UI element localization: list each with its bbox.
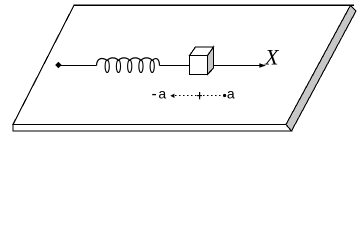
svg-text:a: a bbox=[227, 86, 235, 102]
spring L1 (coil humps) bbox=[97, 58, 160, 66]
wire from anchor to spring bbox=[60, 65, 97, 67]
mass cube top face bbox=[190, 47, 214, 56]
dimension left arrowhead bbox=[170, 94, 174, 98]
mass cube front face bbox=[190, 56, 208, 75]
X axis arrowhead bbox=[259, 63, 266, 68]
plane top face bbox=[13, 5, 351, 124]
dimension right dot bbox=[223, 94, 226, 97]
svg-text:a: a bbox=[158, 86, 166, 102]
dimension dotted line bbox=[175, 95, 223, 97]
X axis arrow line bbox=[214, 65, 261, 67]
svg-text:X: X bbox=[264, 44, 280, 69]
plane right edge slab (gray) bbox=[286, 5, 356, 131]
top edge corner extension bbox=[350, 4, 354, 6]
wire from spring to mass bbox=[160, 65, 190, 67]
plane front edge slab bbox=[13, 125, 292, 132]
anchor diamond node bbox=[56, 62, 62, 68]
label -a bbox=[152, 94, 156, 96]
spring L1 (coil loops) bbox=[105, 60, 154, 73]
mass cube right face (gray) bbox=[208, 47, 214, 75]
dimension center plus bbox=[197, 92, 202, 99]
